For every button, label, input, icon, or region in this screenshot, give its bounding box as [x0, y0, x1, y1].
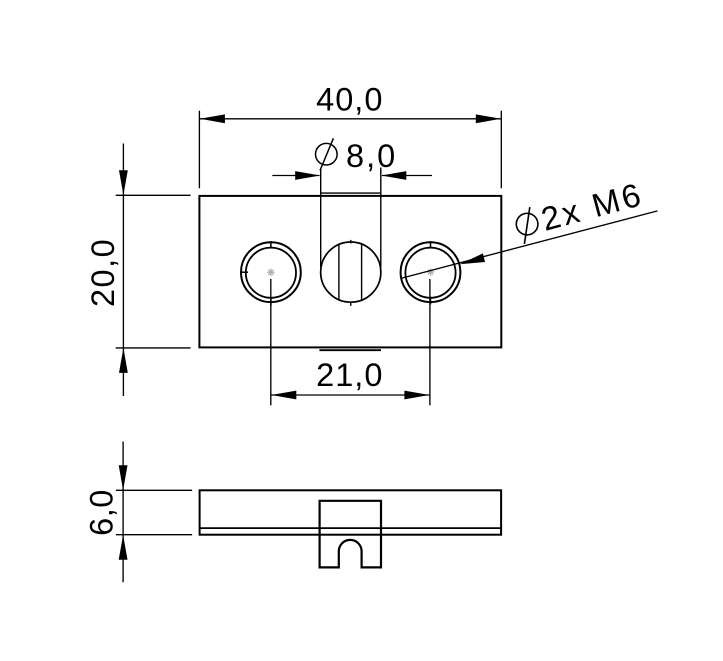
leader text 2x M6 with diameter symbol — [516, 207, 538, 244]
left hole outer circle — [241, 242, 301, 302]
dimension 40,0 left arrow — [200, 114, 225, 123]
inner slot chord right — [361, 244, 363, 301]
right hole inner circle — [405, 248, 455, 298]
left hole center mark — [267, 269, 274, 276]
center hole circle — [321, 242, 381, 302]
dimension 20,0 line — [122, 144, 124, 397]
svg-text:8,0: 8,0 — [346, 138, 397, 174]
leader arrow — [460, 253, 485, 264]
dimension 21,0 right extension line — [429, 279, 431, 405]
left hole bottom tick — [270, 297, 272, 305]
side view inner line — [200, 527, 502, 529]
svg-text:6,0: 6,0 — [84, 489, 120, 536]
dimension 40,0 right arrow — [476, 114, 501, 123]
left hole inner circle — [246, 248, 296, 298]
slot right edge wire — [380, 168, 382, 268]
svg-text:40,0: 40,0 — [316, 81, 383, 117]
dimension diameter 8,0 line left segment — [272, 175, 319, 177]
center hole top tick — [350, 240, 352, 244]
right hole outer circle — [401, 242, 461, 302]
slot chamfer line top edge — [321, 192, 381, 194]
dimension 21,0 left arrow — [271, 391, 296, 400]
dimension 40,0 line — [200, 118, 501, 120]
dimension 21,0 right arrow — [404, 391, 429, 400]
right hole top tick — [430, 241, 432, 247]
dimension 20,0 top arrow — [119, 170, 128, 195]
dimension 40,0 right extension line — [500, 111, 502, 189]
left hole top tick — [270, 241, 272, 247]
leader line to right hole — [402, 211, 658, 278]
dimension 40,0 left extension line — [198, 111, 200, 189]
center hole bottom tick — [350, 302, 352, 306]
dimension 20,0 bottom arrow — [119, 348, 128, 373]
dimension 6,0 line — [122, 442, 124, 583]
right hole center mark — [427, 268, 434, 275]
diameter symbol for 8,0 — [316, 138, 338, 170]
svg-text:20,0: 20,0 — [85, 238, 121, 307]
dimension 21,0 line — [271, 394, 429, 396]
dimension diameter 8,0 line right segment — [382, 175, 432, 177]
slot bottom edge line — [319, 349, 381, 351]
svg-text:21,0: 21,0 — [316, 357, 383, 393]
dimension 8,0 left arrow — [295, 171, 320, 180]
dimension 21,0 left extension line — [270, 279, 272, 405]
inner slot chord left — [338, 244, 340, 301]
dimension 6,0 top arrow — [119, 465, 128, 490]
left hole left tick — [241, 271, 248, 273]
slot left edge wire — [320, 169, 322, 268]
dimension 20,0 top extension line — [116, 194, 191, 196]
right hole bottom tick — [430, 297, 432, 305]
top view plate outline — [199, 196, 501, 348]
side view tab outline — [320, 501, 381, 568]
dimension 6,0 bottom arrow — [119, 535, 128, 560]
dimension 20,0 bottom extension line — [116, 347, 191, 349]
side view plate outline — [200, 490, 502, 534]
dimension 6,0 top extension line — [116, 489, 192, 491]
dimension 8,0 right arrow — [381, 171, 406, 180]
dimension 6,0 bottom extension line — [116, 534, 192, 536]
